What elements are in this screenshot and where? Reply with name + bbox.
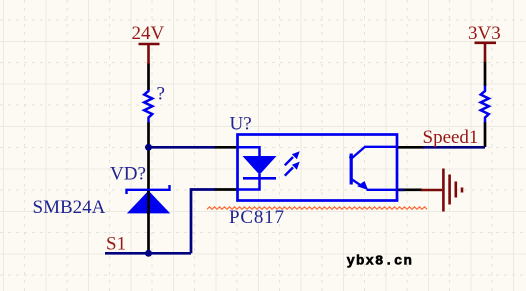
svg-text:U?: U? (230, 113, 252, 134)
svg-text:S1: S1 (106, 234, 126, 255)
svg-text:24V: 24V (132, 23, 165, 44)
svg-text:PC817: PC817 (229, 207, 285, 228)
svg-text:Speed1: Speed1 (423, 127, 479, 148)
svg-text:VD?: VD? (110, 163, 146, 184)
svg-text:SMB24A: SMB24A (33, 197, 106, 218)
svg-text:?: ? (157, 84, 165, 105)
svg-text:ybx8.cn: ybx8.cn (347, 254, 414, 270)
svg-text:3V3: 3V3 (468, 23, 501, 44)
